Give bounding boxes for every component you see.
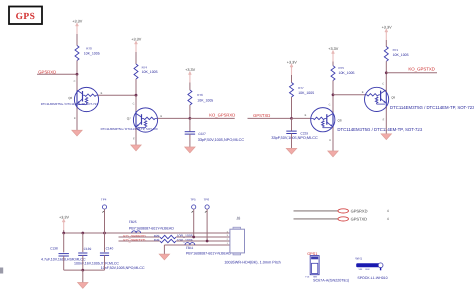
svg-text:C: C — [74, 80, 76, 83]
connector J8 — [227, 216, 245, 255]
power +3.3V (R70 rail) — [72, 19, 82, 34]
resistor R77 — [290, 83, 315, 98]
label WH1 part number — [357, 276, 387, 280]
wire — [82, 255, 84, 270]
test point TP5 — [190, 198, 196, 237]
svg-text:SPOCK-L1-WH010: SPOCK-L1-WH010 — [357, 276, 387, 280]
power +3.3V (R75 rail) — [328, 47, 338, 62]
svg-text:Q8: Q8 — [338, 119, 342, 123]
svg-text:Q6: Q6 — [68, 96, 72, 100]
wire — [190, 117, 235, 119]
off-page connector GPSRXD — [294, 209, 389, 214]
svg-text:R77: R77 — [298, 86, 304, 90]
capacitor C138 — [41, 247, 86, 262]
svg-text:GPSTXD: GPSTXD — [253, 113, 270, 118]
test point TP4 — [101, 198, 107, 233]
wire — [63, 256, 65, 270]
transistor Q8 — [305, 103, 342, 142]
label Q6 part number — [41, 102, 99, 106]
svg-text:+3.3V: +3.3V — [131, 37, 141, 41]
svg-text:10K_1005: 10K_1005 — [197, 98, 213, 102]
ground (Q8 emitter) — [328, 151, 338, 157]
node (C138 tap) — [62, 232, 65, 235]
wire — [385, 107, 387, 134]
wire — [163, 245, 165, 254]
wire — [37, 73, 77, 75]
net KO_GPSRXD (row 2) — [123, 234, 146, 238]
ground (Q6 emitter) — [72, 130, 82, 136]
svg-text:C138: C138 — [50, 247, 58, 251]
svg-text:KO_GPSTXD: KO_GPSTXD — [123, 238, 145, 242]
svg-text:GPSRXD: GPSRXD — [351, 209, 368, 214]
wire — [135, 79, 137, 95]
svg-text:R71: R71 — [393, 48, 399, 52]
wire — [291, 97, 293, 118]
capacitor C140 — [100, 247, 145, 270]
svg-text:10K_1005: 10K_1005 — [298, 91, 314, 95]
capacitor C229 — [271, 131, 318, 140]
svg-text:Q9: Q9 — [391, 96, 395, 100]
wire — [292, 117, 311, 119]
power +3.3V (R76 rail) — [185, 68, 195, 83]
wire — [332, 62, 334, 66]
wire — [157, 117, 190, 119]
cable WH1 — [355, 256, 383, 271]
svg-text:+3.3V: +3.3V — [72, 19, 82, 23]
wire — [332, 95, 334, 113]
svg-text:R76: R76 — [197, 93, 203, 97]
node (R77 / GPSTXD / C229 junction) — [290, 117, 293, 120]
node (R74 / Q6.B / Q7.C junction) — [135, 94, 138, 97]
svg-text:E: E — [329, 139, 331, 142]
resistor R74 — [134, 64, 158, 79]
transistor Q7 — [127, 102, 163, 140]
node (R71 / Q9.C / KO_GPSTXD junction) — [385, 71, 388, 74]
off-page connector GPSTXD — [294, 217, 389, 222]
wire — [291, 118, 293, 131]
resistor R49 — [154, 238, 193, 243]
svg-text:10K_1005: 10K_1005 — [393, 53, 409, 57]
label Q9 part number — [390, 105, 474, 110]
svg-text:10nF,50V,1005,NPO;MLCC: 10nF,50V,1005,NPO;MLCC — [101, 266, 145, 270]
svg-text:GPSTXD: GPSTXD — [351, 217, 368, 222]
wire — [176, 240, 230, 242]
label Q8 part number — [337, 127, 422, 132]
wire — [189, 83, 191, 91]
wire — [333, 94, 365, 96]
svg-text:C229: C229 — [300, 131, 308, 135]
wire (+3.3V bus) — [64, 232, 230, 234]
svg-text:BLK: BLK — [366, 268, 371, 271]
svg-text:33pF,50V,1005,NPO;MLCC: 33pF,50V,1005,NPO;MLCC — [198, 138, 245, 142]
svg-text:R75: R75 — [339, 66, 345, 70]
wire (cap return bus) — [64, 269, 105, 271]
svg-text:B: B — [160, 115, 162, 118]
wire — [76, 34, 78, 46]
svg-text:TP5: TP5 — [190, 198, 196, 202]
svg-text:C140: C140 — [106, 247, 114, 251]
svg-text:R49: R49 — [154, 238, 160, 242]
wire — [135, 52, 137, 64]
svg-text:KO_GPSRXD: KO_GPSRXD — [209, 113, 235, 118]
title block GPS — [9, 7, 42, 25]
test point TP6 — [204, 198, 210, 241]
svg-text:C227: C227 — [198, 132, 206, 136]
wire — [291, 134, 293, 149]
ground (C227) — [185, 147, 195, 153]
wire — [104, 233, 106, 252]
svg-text:+3.3V: +3.3V — [328, 47, 338, 51]
node (R75 / Q8.C / Q9.B junction) — [332, 93, 335, 96]
ground (C229) — [286, 148, 296, 154]
svg-text:C: C — [133, 102, 135, 105]
label J8 part number — [224, 261, 281, 265]
resistor R70 — [75, 46, 100, 61]
wire — [76, 74, 78, 91]
wire — [189, 105, 191, 118]
svg-text:B: B — [305, 114, 307, 117]
resistor R71 — [384, 47, 408, 62]
svg-text:R70: R70 — [86, 46, 92, 50]
wire — [98, 94, 136, 96]
ground (decoupling caps) — [78, 283, 88, 289]
label GPS1 part number — [313, 279, 349, 283]
transistor Q9 — [362, 83, 396, 122]
svg-text:E: E — [133, 138, 135, 141]
net KO_GPSRXD — [209, 113, 235, 118]
wire — [385, 73, 387, 92]
wire — [385, 61, 387, 73]
svg-text:+3.3V: +3.3V — [185, 68, 195, 72]
wire — [176, 236, 230, 238]
svg-text:FB25: FB25 — [129, 220, 137, 224]
wire — [164, 244, 229, 246]
svg-text:FB11: FB11 — [186, 246, 194, 250]
svg-text:+3.3V: +3.3V — [287, 60, 297, 64]
svg-text:DTC114EM3T5G / DTC114EM-TP, SO: DTC114EM3T5G / DTC114EM-TP, SOT-723 — [337, 127, 422, 132]
wire — [332, 127, 334, 151]
svg-text:B: B — [362, 91, 364, 94]
svg-text:GPSRXD: GPSRXD — [38, 69, 56, 74]
node (ground tap) — [81, 269, 84, 272]
power +3.3V (R74 rail) — [131, 37, 141, 52]
wire — [119, 236, 160, 238]
ground (Q9 emitter) — [381, 134, 391, 140]
svg-text:DTC114EM3T5G / DTC114EM-TP, SO: DTC114EM3T5G / DTC114EM-TP, SOT-723 — [101, 127, 158, 131]
svg-text:+3.3V: +3.3V — [59, 215, 69, 219]
svg-text:Q7: Q7 — [127, 117, 131, 121]
svg-text:TP6: TP6 — [204, 198, 210, 202]
resistor R29 — [154, 234, 193, 239]
transistor Q6 — [68, 80, 102, 120]
power +3.3V (R71 rail) — [382, 25, 392, 40]
svg-text:VIN: VIN — [359, 268, 363, 271]
svg-text:33pF,50V,1005,NPO;MLCC: 33pF,50V,1005,NPO;MLCC — [271, 136, 318, 140]
wire — [76, 108, 78, 131]
svg-text:C: C — [329, 103, 331, 106]
svg-text:10K_1005: 10K_1005 — [142, 70, 158, 74]
sheet margin mark — [0, 268, 3, 274]
svg-text:C139: C139 — [84, 247, 92, 251]
wire — [82, 270, 84, 282]
label Q7 part number — [101, 127, 158, 131]
wire — [189, 118, 191, 131]
node (C140 / TP4 tap) — [103, 232, 106, 235]
svg-text:E: E — [383, 118, 385, 121]
svg-text:J8: J8 — [236, 216, 240, 221]
svg-text:4: 4 — [387, 209, 389, 213]
wire — [332, 81, 334, 95]
wire — [82, 233, 84, 252]
svg-text:WH1: WH1 — [355, 256, 362, 260]
node (C139 tap) — [81, 232, 84, 235]
capacitor C227 — [185, 132, 245, 142]
wire — [385, 40, 387, 47]
resistor R75 — [331, 66, 355, 81]
ferrite bead FB11 — [185, 243, 231, 256]
node (R70 / GPSRXD / Q6.C junction) — [76, 73, 79, 76]
wire — [76, 61, 78, 75]
wire — [63, 230, 65, 233]
wire — [119, 240, 160, 242]
wire — [135, 128, 137, 145]
svg-text:10035WR-HD4(BK), 1.0mm Pitch: 10035WR-HD4(BK), 1.0mm Pitch — [224, 261, 281, 265]
wire — [189, 134, 191, 147]
svg-text:10K_1005: 10K_1005 — [84, 51, 100, 55]
svg-text:TP4: TP4 — [101, 198, 107, 202]
svg-text:R74: R74 — [142, 65, 148, 69]
wire — [104, 255, 106, 270]
net GPSTXD — [253, 113, 270, 118]
svg-text:10K_1005: 10K_1005 — [339, 71, 355, 75]
svg-text:+3.3V: +3.3V — [382, 25, 392, 29]
power +3.3V (R77 rail) — [287, 60, 297, 75]
wire — [63, 233, 65, 252]
svg-text:KO_GPSTXD: KO_GPSTXD — [408, 67, 435, 72]
ground (Q7 emitter) — [131, 145, 141, 151]
svg-text:4: 4 — [387, 217, 389, 221]
node (TP6 tap) — [206, 240, 209, 243]
svg-text:PBY1608087-601Y-N;BEAD: PBY1608087-601Y-N;BEAD — [129, 227, 174, 231]
resistor R76 — [188, 90, 213, 105]
wire — [248, 117, 292, 119]
wire — [386, 72, 437, 74]
node (R76 / Q7.B / C227 junction) — [189, 117, 192, 120]
wire — [291, 75, 293, 83]
ferrite bead FB25 — [129, 220, 174, 233]
svg-text:GPS: GPS — [16, 12, 36, 22]
svg-text:F16: F16 — [305, 276, 310, 279]
svg-text:C: C — [382, 83, 384, 86]
svg-text:DTC114EM3T5G / DTC114EM-TP, SO: DTC114EM3T5G / DTC114EM-TP, SOT-723 — [390, 105, 474, 110]
net GPSRXD — [38, 69, 56, 74]
capacitor C139 — [74, 247, 119, 266]
antenna GPS1 — [305, 252, 319, 278]
svg-text:E: E — [74, 117, 76, 120]
ground (FB11 / J8 shield) — [159, 254, 169, 260]
svg-text:DTC114EM3T5G / DTC114EM-TP, SO: DTC114EM3T5G / DTC114EM-TP, SOT-723 — [41, 102, 99, 106]
node (TP5 tap) — [192, 236, 195, 239]
svg-text:SC67A-A(GN220TE1): SC67A-A(GN220TE1) — [313, 279, 349, 283]
net KO_GPSTXD (row 3) — [123, 238, 145, 242]
net KO_GPSTXD — [408, 67, 435, 72]
power +3.3V (decoupling rail) — [59, 215, 69, 230]
wire — [135, 95, 137, 112]
svg-text:PBY1608087-601Y-N;BEAD: PBY1608087-601Y-N;BEAD — [186, 251, 231, 255]
